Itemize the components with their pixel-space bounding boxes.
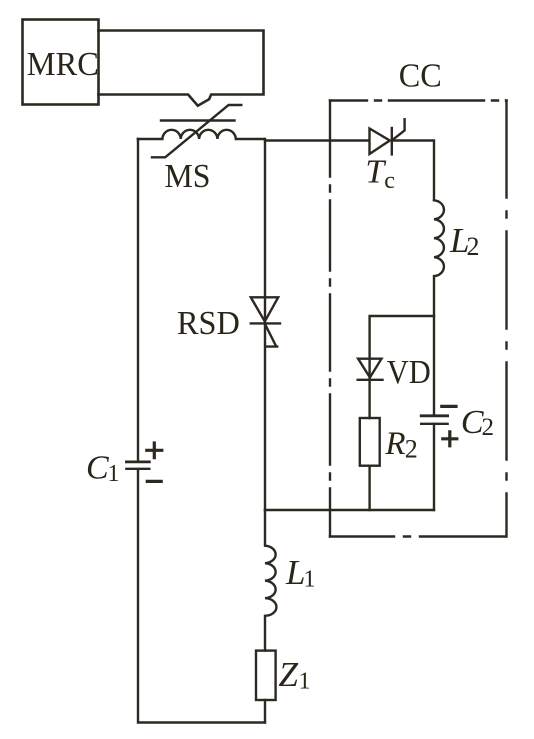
svg-text:1: 1: [108, 461, 120, 487]
svg-text:RSD: RSD: [177, 305, 240, 342]
svg-text:2: 2: [405, 435, 418, 464]
svg-text:2: 2: [467, 232, 480, 261]
svg-text:T: T: [365, 154, 386, 191]
svg-text:MRC: MRC: [27, 46, 99, 83]
svg-text:C: C: [86, 450, 109, 487]
svg-text:R: R: [384, 426, 405, 462]
svg-text:MS: MS: [165, 158, 211, 195]
svg-text:L: L: [285, 553, 305, 592]
svg-text:VD: VD: [387, 354, 431, 391]
svg-text:1: 1: [299, 669, 311, 695]
svg-text:2: 2: [482, 414, 495, 441]
svg-text:c: c: [384, 168, 395, 194]
svg-text:CC: CC: [399, 57, 442, 94]
svg-text:Z: Z: [279, 655, 299, 694]
svg-text:1: 1: [304, 567, 316, 593]
svg-text:C: C: [461, 404, 484, 441]
